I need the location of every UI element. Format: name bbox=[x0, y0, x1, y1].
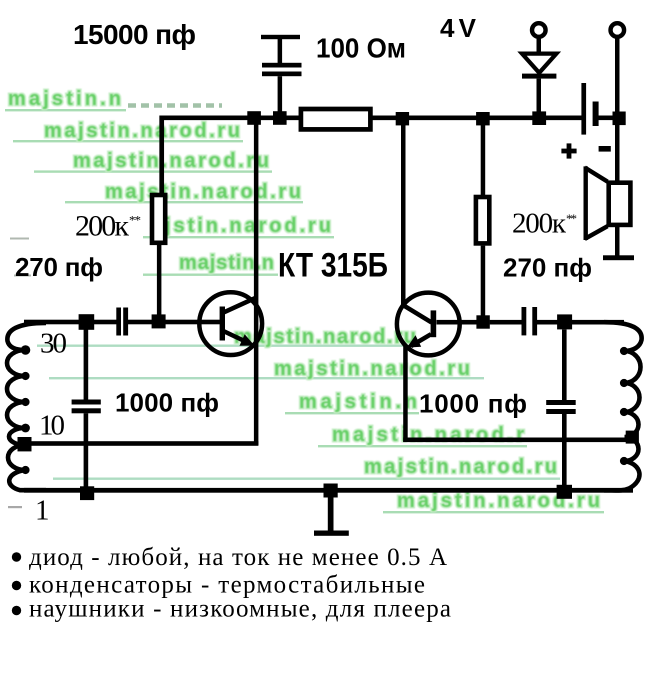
wire feedback line right bbox=[403, 438, 633, 443]
diode VD1 bbox=[522, 54, 556, 73]
transistor Q2 KT315 bbox=[397, 293, 460, 356]
svg-text:majstin.n: majstin.n bbox=[299, 391, 417, 413]
node tank right bbox=[557, 314, 572, 329]
svg-text:200к: 200к bbox=[512, 208, 567, 240]
wire bottom bus bbox=[24, 488, 633, 493]
wire base lead T1 bbox=[165, 320, 221, 325]
node bus-T2 bbox=[396, 112, 409, 125]
watermark row 5 bbox=[10, 215, 334, 240]
note line 1 bullet bbox=[12, 552, 21, 561]
gray dash near coil tap 1 bbox=[8, 506, 22, 508]
speaker bottom bar bbox=[603, 255, 634, 260]
wire T2 emitter down bbox=[403, 346, 408, 442]
antenna bar bbox=[261, 35, 300, 39]
watermark row 4 bbox=[65, 181, 303, 203]
wire T1 collector drop bbox=[254, 120, 259, 445]
wire diode to bus bbox=[537, 79, 542, 113]
svg-text:наушники - низкоомные, для пле: наушники - низкоомные, для плеера bbox=[29, 596, 451, 623]
svg-text:4 V: 4 V bbox=[440, 13, 477, 43]
svg-text:majstin.narod.ru: majstin.narod.ru bbox=[274, 358, 470, 380]
svg-text:majstin.n: majstin.n bbox=[8, 88, 121, 110]
node bus-phones bbox=[613, 112, 626, 126]
wire bus battery to node bbox=[596, 116, 620, 121]
svg-text:**: ** bbox=[129, 213, 141, 228]
capacitor C5 1000pF right bbox=[546, 330, 576, 486]
watermark row 9 bbox=[285, 391, 419, 414]
terminal phones circle bbox=[611, 23, 625, 37]
inductor L1 left coil bbox=[7, 323, 46, 490]
svg-text:ajstin.narod.ru: ajstin.narod.ru bbox=[151, 215, 331, 237]
svg-text:majstin.narod.ru: majstin.narod.ru bbox=[73, 150, 269, 172]
node ground bbox=[324, 484, 338, 498]
wire feedback line left bbox=[24, 441, 258, 446]
svg-text:270 пф: 270 пф bbox=[15, 252, 103, 282]
svg-text:диод - любой, на ток не менее: диод - любой, на ток не менее 0.5 А bbox=[29, 544, 447, 571]
resistor R2 200k left bbox=[152, 195, 165, 243]
node bus-T1 bbox=[247, 111, 261, 125]
note line 2 bullet bbox=[12, 581, 21, 590]
node base right bbox=[476, 315, 489, 328]
ground bbox=[314, 497, 349, 536]
svg-text:1: 1 bbox=[35, 495, 50, 527]
svg-text:majstin.narod.r: majstin.narod.r bbox=[332, 424, 524, 446]
transistor Q1 KT315 bbox=[199, 292, 262, 355]
svg-text:100 Ом: 100 Ом bbox=[316, 33, 406, 64]
svg-text:15000 пф: 15000 пф bbox=[73, 19, 196, 50]
svg-text:10: 10 bbox=[39, 410, 65, 442]
wire T2 collector drop bbox=[401, 120, 406, 306]
svg-text:30: 30 bbox=[40, 328, 67, 360]
speaker cone bbox=[584, 166, 588, 240]
wire tank top line left bbox=[24, 320, 117, 325]
node bus-C1 bbox=[273, 111, 287, 125]
svg-text:КТ 315Б: КТ 315Б bbox=[278, 247, 388, 285]
wire C4 to tank node right bbox=[537, 320, 558, 325]
wire R3 drop bbox=[481, 120, 486, 195]
watermark row 12 bbox=[383, 490, 604, 513]
wire antenna stem bbox=[278, 39, 283, 64]
node tank left bbox=[79, 314, 95, 330]
resistor R1 100 Ohm bbox=[301, 109, 371, 129]
battery minus sign bbox=[599, 146, 611, 152]
svg-text:270 пф: 270 пф bbox=[503, 253, 592, 283]
watermark row 3 bbox=[34, 150, 272, 173]
node base left bbox=[152, 314, 166, 328]
wire R3 to base node bbox=[481, 246, 486, 316]
inductor L2 right coil bbox=[604, 322, 642, 490]
watermark row 6 bbox=[14, 252, 278, 277]
wire R2 to base node bbox=[157, 245, 162, 316]
node bus-R3 bbox=[476, 112, 490, 125]
svg-text:majstin.n: majstin.n bbox=[179, 252, 274, 274]
battery GB1 plates bbox=[581, 83, 586, 135]
wire phones terminal down bbox=[615, 39, 620, 112]
watermark row 8 bbox=[49, 358, 484, 380]
watermark row 7 bbox=[37, 326, 419, 348]
node bottom left bbox=[80, 486, 94, 500]
resistor R3 200k right bbox=[476, 197, 489, 243]
wire terminal to diode bbox=[537, 39, 542, 55]
svg-text:majstin.narod.ru: majstin.narod.ru bbox=[44, 120, 240, 142]
node bus-diode bbox=[532, 111, 546, 125]
svg-text:majstin.narod.ru: majstin.narod.ru bbox=[105, 181, 301, 203]
capacitor C2 coupling left bbox=[116, 308, 121, 336]
wire node to C4 bbox=[490, 320, 522, 325]
node bottom right bbox=[557, 485, 572, 499]
wire base lead T2 bbox=[437, 320, 478, 325]
terminal antenna-supply circle bbox=[532, 23, 546, 37]
svg-text:конденсаторы - термостабильные: конденсаторы - термостабильные bbox=[29, 572, 425, 599]
svg-text:200к: 200к bbox=[75, 210, 129, 243]
svg-text:**: ** bbox=[566, 211, 577, 226]
watermark row 2 bbox=[13, 120, 243, 142]
wire C1 to bus bbox=[278, 76, 283, 116]
capacitor C4 coupling right bbox=[522, 307, 527, 335]
wire speaker down bbox=[615, 227, 620, 257]
wire tank node to coil right bbox=[571, 320, 624, 325]
node coil tap right bbox=[626, 431, 639, 444]
capacitor C3 1000pF left bbox=[72, 330, 101, 488]
watermark row 1 bbox=[5, 88, 222, 111]
note line 3 bullet bbox=[12, 606, 21, 615]
speaker magnet bbox=[609, 183, 631, 225]
svg-text:majstin.narod.ru: majstin.narod.ru bbox=[364, 456, 557, 478]
battery plus sign bbox=[567, 143, 572, 158]
watermark row 11 bbox=[53, 456, 560, 480]
svg-text:1000 пф: 1000 пф bbox=[115, 388, 219, 418]
wire node to speaker bbox=[615, 125, 620, 182]
svg-text:1000 пф: 1000 пф bbox=[419, 389, 527, 419]
wire C2 to node bbox=[128, 320, 154, 325]
capacitor C1 15000pF plates bbox=[262, 63, 302, 68]
wire top bus with left corner down to R2 bbox=[162, 118, 582, 194]
watermark row 10 bbox=[318, 424, 527, 447]
